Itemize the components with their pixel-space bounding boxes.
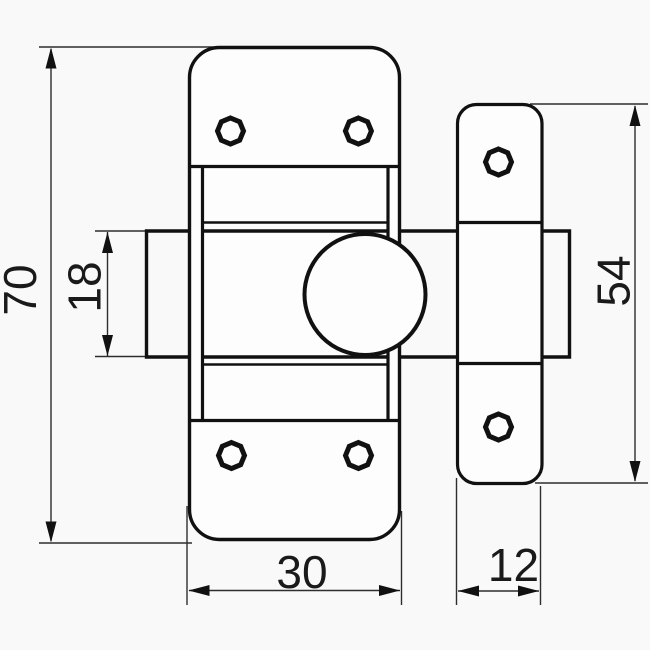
main plate raised-channel left vertical	[201, 167, 204, 421]
dimension 54: dimension line	[634, 106, 636, 481]
knob circle	[305, 234, 426, 355]
main plate raised-channel top edge	[190, 165, 399, 168]
bolt gap segment top edge	[400, 229, 458, 232]
main plate slot top edge	[203, 221, 389, 224]
bolt left segment	[147, 231, 191, 357]
hex hole keeper bottom	[486, 414, 512, 440]
hex hole bottom-left	[219, 443, 245, 469]
dimension 54: bottom arrowhead	[630, 461, 641, 482]
dimension 30: left arrowhead	[189, 585, 210, 596]
hex hole top-left	[218, 118, 244, 144]
svg-text:54: 54	[588, 255, 640, 306]
hex hole bottom-right	[346, 443, 372, 469]
bolt right protrusion	[543, 231, 570, 357]
svg-text:30: 30	[276, 546, 327, 598]
dimension 30: dimension line	[189, 590, 400, 592]
dimension 18: top arrowhead	[102, 232, 113, 253]
svg-text:70: 70	[0, 264, 46, 315]
main plate raised-channel right vertical	[386, 167, 389, 421]
dimension 18: bottom arrowhead	[102, 335, 113, 356]
dimension 18: dimension line	[107, 232, 109, 356]
dimension 30: right arrowhead	[379, 585, 400, 596]
dimension 12: right extension line	[540, 486, 542, 605]
dimension 70: top extension line	[39, 46, 218, 48]
dimension 18: bottom extension line	[95, 356, 146, 358]
bolt middle segment bottom edge	[203, 355, 389, 358]
dimension 30: left extension line	[186, 506, 188, 605]
main plate outline	[190, 48, 400, 540]
dimension 70: bottom extension line	[39, 542, 192, 544]
main plate raised-channel bottom edge	[190, 419, 399, 422]
keeper plate outline	[458, 105, 543, 484]
dimension 12: left extension line	[456, 478, 458, 605]
dimension 18: top extension line	[95, 230, 146, 232]
dimension 12: left arrowhead	[458, 586, 479, 597]
svg-text:18: 18	[59, 261, 111, 312]
dimension 30: right extension line	[401, 511, 403, 605]
main plate slot bottom edge	[203, 363, 389, 366]
dimension 54: top arrowhead	[630, 105, 641, 126]
hex hole top-right	[345, 118, 371, 144]
hex hole keeper top	[486, 149, 512, 175]
svg-text:12: 12	[488, 539, 539, 591]
dimension 54: top extension line	[530, 103, 648, 105]
keeper plate slot bottom edge	[458, 362, 543, 365]
dimension 12: dimension line	[458, 590, 539, 592]
dimension 70: dimension line	[50, 49, 52, 541]
bolt gap segment bottom edge	[400, 355, 458, 358]
dimension 12: right arrowhead	[518, 586, 539, 597]
dimension 70: top arrowhead	[46, 48, 57, 69]
keeper plate slot top edge	[458, 221, 543, 224]
bolt middle segment top edge	[203, 229, 389, 232]
dimension 54: bottom extension line	[535, 482, 648, 484]
dimension 70: bottom arrowhead	[46, 522, 57, 543]
